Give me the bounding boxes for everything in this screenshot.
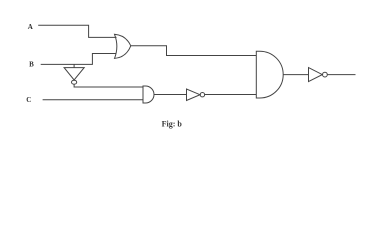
wire B to OR gate bottom input [41, 54, 116, 65]
wire C to AND gate G2 bottom input [43, 99, 143, 101]
AND gate G2 [143, 86, 154, 103]
svg-text:A: A [28, 23, 33, 31]
inverter U1 bubble [72, 80, 77, 84]
wire OR gate output to big AND gate G3 top input [131, 46, 256, 56]
AND gate G3 [256, 51, 283, 98]
wire B junction down to inverter [73, 64, 75, 67]
wire inverter output to AND gate G2 top input [74, 84, 143, 87]
inverter U2 bubble [200, 93, 204, 97]
inverter U2 (NOT) [187, 89, 201, 101]
wire AND G2 output to inverter U2 [154, 94, 187, 96]
svg-text:B: B [29, 61, 34, 69]
svg-text:C: C [26, 96, 31, 104]
inverter U3 (NOT) [309, 68, 323, 82]
wire AND G3 output to inverter U3 [283, 74, 308, 76]
OR gate G1 [115, 34, 131, 58]
wire inverter U2 output to big AND gate G3 bottom input [205, 94, 257, 96]
inverter U1 (NOT, pointing down) [64, 68, 84, 80]
svg-text:Fig: b: Fig: b [162, 119, 183, 128]
inverter U3 bubble [323, 72, 328, 77]
wire A to OR gate top input [38, 25, 116, 37]
wire output [327, 74, 355, 76]
